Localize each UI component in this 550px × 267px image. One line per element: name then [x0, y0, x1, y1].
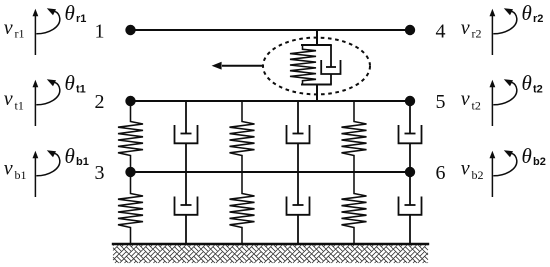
dof arc theta b1 — [36, 150, 60, 176]
dof arc theta r2 — [493, 8, 517, 34]
svg-text:v: v — [4, 88, 13, 110]
label v b2 — [461, 158, 484, 183]
svg-text:b1: b1 — [15, 168, 27, 182]
bridge girder beam 3-6 — [130, 171, 410, 173]
label v b1 — [4, 158, 27, 183]
svg-text:v: v — [4, 17, 13, 39]
svg-text:r1: r1 — [76, 13, 86, 25]
dof arrow v t2 — [490, 80, 496, 126]
damper C t1 (slab) — [175, 101, 198, 172]
label v t2 — [461, 88, 481, 113]
svg-text:v: v — [4, 158, 13, 180]
damper C b3 (bridge) — [399, 172, 422, 244]
svg-text:2: 2 — [95, 91, 105, 113]
node 6 — [405, 167, 415, 177]
fastener damper — [321, 45, 340, 85]
spring K b2 (bridge mid) — [230, 172, 255, 244]
spring K t1 (slab left) — [118, 101, 143, 172]
fastener stem bottom — [316, 85, 318, 102]
svg-text:b2: b2 — [533, 156, 546, 168]
label theta b1 — [65, 144, 89, 168]
fastener spring-damper unit (dashed ellipse highlight) — [263, 38, 370, 95]
label v t1 — [4, 88, 24, 113]
node 5 — [405, 96, 415, 106]
svg-text:θ: θ — [522, 1, 532, 25]
label theta r1 — [65, 1, 87, 25]
fastener bottom bar — [301, 84, 332, 86]
spring K b1 (bridge left) — [118, 172, 143, 244]
svg-text:t2: t2 — [533, 84, 543, 96]
svg-text:b1: b1 — [76, 156, 89, 168]
svg-text:v: v — [461, 17, 470, 39]
fastener spring — [290, 45, 316, 85]
node label 3 — [95, 162, 105, 184]
spring K t2 (slab mid) — [230, 101, 255, 172]
pointer arrow to fastener — [212, 62, 264, 70]
fastener stem top — [316, 30, 318, 45]
dof arc theta r1 — [36, 8, 60, 34]
label theta r2 — [522, 1, 544, 25]
svg-text:6: 6 — [436, 162, 446, 184]
node 1 — [125, 25, 135, 35]
dof arc theta t2 — [493, 79, 517, 105]
svg-text:θ: θ — [65, 1, 75, 25]
damper C t2 (slab) — [287, 101, 310, 172]
damper C b2 (bridge) — [287, 172, 310, 244]
label v r2 — [461, 17, 482, 41]
svg-text:1: 1 — [95, 21, 105, 43]
svg-text:θ: θ — [65, 144, 75, 168]
svg-text:r1: r1 — [15, 27, 25, 41]
svg-text:r2: r2 — [472, 27, 482, 41]
svg-text:t1: t1 — [76, 84, 86, 96]
svg-text:t2: t2 — [472, 98, 481, 112]
spring K b3 (bridge right) — [342, 172, 367, 244]
dof arrow v b1 — [33, 151, 39, 197]
label theta b2 — [522, 144, 546, 168]
damper C b1 (bridge) — [175, 172, 198, 244]
node 4 — [405, 25, 415, 35]
node label 1 — [95, 21, 105, 43]
damper C t3 (slab) — [399, 101, 422, 172]
spring K t3 (slab right) — [342, 101, 367, 172]
svg-text:5: 5 — [436, 91, 446, 113]
svg-text:3: 3 — [95, 162, 105, 184]
svg-text:r2: r2 — [533, 13, 543, 25]
track slab beam 2-5 — [130, 100, 410, 102]
dof arc theta b2 — [493, 150, 517, 176]
dof arrow v b2 — [490, 151, 496, 197]
fastener top bar — [301, 44, 332, 46]
svg-text:v: v — [461, 158, 470, 180]
svg-text:b2: b2 — [472, 168, 484, 182]
dof arrow v t1 — [33, 80, 39, 126]
node 3 — [125, 167, 135, 177]
node label 6 — [436, 162, 446, 184]
svg-text:θ: θ — [522, 71, 532, 95]
node label 2 — [95, 91, 105, 113]
label theta t2 — [522, 71, 543, 96]
dof arrow v r2 — [490, 9, 496, 55]
node label 5 — [436, 91, 446, 113]
ground hatch — [113, 245, 428, 263]
svg-text:t1: t1 — [15, 98, 24, 112]
svg-text:θ: θ — [522, 144, 532, 168]
svg-text:θ: θ — [65, 71, 75, 95]
ground line — [113, 243, 428, 245]
dof arc theta t1 — [36, 79, 60, 105]
label theta t1 — [65, 71, 86, 96]
rail beam 1-4 — [130, 29, 410, 31]
node 2 — [125, 96, 135, 106]
node label 4 — [436, 21, 446, 43]
svg-text:4: 4 — [436, 21, 446, 43]
dof arrow v r1 — [33, 9, 39, 55]
label v r1 — [4, 17, 25, 41]
svg-text:v: v — [461, 88, 470, 110]
